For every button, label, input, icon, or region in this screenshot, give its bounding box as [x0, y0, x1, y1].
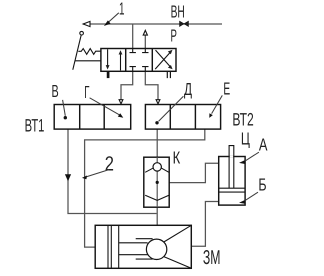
valve plate line [118, 225, 120, 268]
section3 arrowhead up-right [168, 50, 173, 54]
spring [78, 49, 101, 55]
section2 blocked stub bottom-left [130, 67, 136, 72]
section3 cross arrow down-right [156, 50, 171, 67]
piston long lines [119, 243, 148, 255]
wire: top supply line [83, 23, 222, 25]
K seat left [145, 168, 153, 173]
svg-text:А: А [259, 135, 268, 155]
dot D [155, 121, 158, 124]
blocked stub below section3 [167, 71, 170, 78]
needle valve BH bowtie left [180, 21, 184, 26]
section1 up arrowhead [119, 50, 123, 54]
cylinder C barrel [219, 157, 245, 206]
filled arrow down on BT1 long line [65, 174, 71, 181]
piston double line [219, 188, 245, 192]
wire: valve to BT1 [121, 71, 133, 99]
valve BT2 body [145, 105, 220, 130]
BT1 divider 2 [103, 105, 105, 130]
K center line inside [156, 157, 158, 207]
svg-text:2: 2 [105, 152, 114, 175]
K junction dot [156, 181, 159, 184]
arrowhead G (filled) [118, 113, 124, 118]
svg-text:Е: Е [223, 78, 230, 98]
leader B2 [245, 192, 258, 200]
wire: vent shaft above valve [144, 35, 146, 48]
arrowhead A (filled) [239, 160, 245, 164]
arrowhead E (filled) [209, 113, 213, 118]
directional valve U1 body [101, 49, 176, 72]
section3 cross arrow up-right [155, 52, 170, 69]
dot B [64, 116, 67, 119]
section2 blocked stub top-left [130, 49, 136, 53]
svg-text:1: 1 [119, 0, 125, 19]
svg-text:Р: Р [171, 25, 177, 45]
arrowhead 1 (filled) [104, 20, 111, 26]
leader B [63, 100, 66, 116]
vent open arrow above valve [143, 30, 147, 35]
open arrow into BT2 top [156, 100, 160, 104]
leader D [159, 96, 184, 121]
barrel top gap for rod [230, 156, 233, 158]
valve BT1 body [54, 105, 131, 130]
tick 2 [82, 176, 87, 180]
wire: valve to BT2 [145, 71, 158, 99]
wire: P port up to supply line [132, 24, 134, 49]
open arrow into BT1 top [119, 100, 123, 104]
BT2 divider 2 [194, 105, 196, 130]
swash plate double line [108, 225, 111, 268]
lever arm [73, 35, 81, 70]
leader E [212, 95, 223, 113]
svg-text:ВТ1: ВТ1 [25, 115, 45, 135]
open arrowhead at left end of supply line [83, 21, 90, 26]
svg-text:ВН: ВН [171, 1, 185, 21]
tank stub below section1 (bold) [107, 71, 110, 78]
section1 down arrowhead [106, 65, 110, 69]
svg-text:Ц: Ц [241, 129, 250, 149]
arrowhead B2 (filled) [239, 200, 245, 204]
section1 up arrow [120, 54, 122, 71]
svg-text:Б: Б [258, 175, 266, 195]
svg-text:К: К [173, 147, 181, 167]
needle valve BH bowtie right [184, 21, 188, 26]
diagonal to bottom-right corner [164, 257, 192, 269]
rotor circle [146, 239, 166, 259]
svg-text:В: В [52, 81, 59, 101]
lever pivot line [75, 60, 101, 62]
K chevron [145, 195, 169, 200]
section2 blocked stub bottom-right [142, 67, 148, 72]
diagonal to top-right corner [164, 225, 192, 242]
BT1 divider 1 [79, 105, 81, 130]
wire: BT2 sec1 down through K to motor [156, 129, 158, 225]
K ball [153, 163, 161, 171]
K seat right [161, 168, 169, 173]
leader 1 [108, 13, 119, 23]
wire: cylinder B port to motor [191, 202, 218, 247]
svg-text:ЗМ: ЗМ [203, 247, 221, 269]
lever knob [80, 31, 84, 35]
wire: BT1 sec1 down then right to K line [68, 129, 157, 213]
leader G [90, 98, 121, 116]
motor 3M body [95, 225, 191, 268]
svg-text:Г: Г [84, 82, 89, 102]
wire: loop from BT2 sec3 down-left-down to motor [85, 129, 205, 247]
valve divider 2 [151, 49, 153, 72]
leader A [245, 152, 259, 161]
check valve K body [144, 157, 169, 207]
rod [229, 146, 234, 189]
svg-text:Д: Д [184, 79, 192, 99]
leader 2 [85, 170, 110, 178]
wire: K tap to cylinder A port [157, 163, 219, 182]
section3 arrowhead down-right [168, 65, 173, 69]
valve divider 1 [125, 49, 127, 72]
BT2 divider 1 [169, 105, 171, 130]
section2 blocked stub top-right [142, 49, 148, 53]
piston short lines [136, 239, 153, 259]
section1 down arrow [107, 49, 109, 65]
svg-text:ВТ2: ВТ2 [232, 110, 253, 130]
